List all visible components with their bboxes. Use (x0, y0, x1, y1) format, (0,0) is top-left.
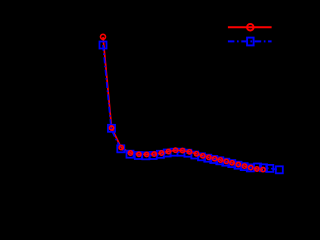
red circle marker 10 (173, 148, 177, 152)
red circle marker 9 (166, 149, 170, 153)
blue square marker 25 (266, 165, 273, 172)
red circle marker 8 (159, 151, 163, 155)
blue square marker 18 (222, 159, 229, 166)
blue square marker 20 (235, 162, 242, 169)
red circle marker 7 (152, 152, 156, 156)
blue square marker 8 (157, 151, 164, 158)
red circle marker 16 (212, 157, 216, 161)
blue square marker 13 (191, 152, 198, 159)
blue square marker 4 (127, 151, 134, 158)
red circle marker 13 (194, 152, 198, 156)
red circle marker 5 (137, 152, 141, 156)
blue square marker 9 (164, 150, 171, 157)
red circle marker 14 (201, 154, 205, 158)
legend entry 2: blue dash-dot line sample (228, 40, 272, 42)
blue square marker 21 (241, 163, 248, 170)
red circle marker 4 (128, 151, 132, 155)
blue square marker 11 (178, 149, 185, 156)
red circle marker 6 (144, 152, 148, 156)
blue square marker 3 (117, 145, 124, 152)
red circle marker 1 (101, 34, 106, 39)
red circle marker 15 (207, 155, 211, 159)
red circle marker 12 (187, 150, 191, 154)
red circle marker 23 (255, 167, 259, 171)
red series polyline (series 1) (103, 37, 263, 170)
red circle marker 20 (236, 162, 240, 166)
red circle marker 18 (224, 159, 228, 163)
blue square marker 16 (210, 156, 217, 163)
red circle marker 2 (109, 126, 113, 130)
legend entry 1: red line sample (228, 26, 272, 28)
blue square marker 5 (135, 152, 142, 159)
legend entry 1: red circle marker sample (247, 24, 254, 31)
red circle marker 3 (119, 145, 123, 149)
red circle marker 22 (249, 165, 253, 169)
blue square marker 6 (142, 152, 149, 159)
red circle marker 21 (242, 164, 246, 168)
blue square marker 17 (216, 157, 223, 164)
blue square marker 2 (108, 125, 115, 132)
blue square marker 19 (228, 160, 235, 167)
red circle marker 24 (261, 167, 265, 171)
red circle marker 11 (180, 148, 184, 152)
blue square marker 22 (247, 164, 254, 171)
blue square marker 14 (198, 153, 205, 160)
blue series dash-dot polyline (series 2) (103, 45, 279, 170)
blue square marker 23 (254, 164, 261, 171)
blue square marker 10 (171, 149, 178, 156)
blue square marker 15 (204, 155, 211, 162)
red circle markers group (101, 34, 266, 171)
blue square markers group (100, 42, 283, 174)
blue square marker 1 (100, 42, 107, 49)
blue square marker 24 (260, 164, 267, 171)
red circle marker 19 (230, 161, 234, 165)
blue square marker 26 (276, 166, 283, 173)
blue square marker 12 (184, 150, 191, 157)
legend entry 2: blue square marker sample (247, 38, 254, 46)
red circle marker 17 (218, 158, 222, 162)
blue square marker 7 (150, 152, 157, 159)
